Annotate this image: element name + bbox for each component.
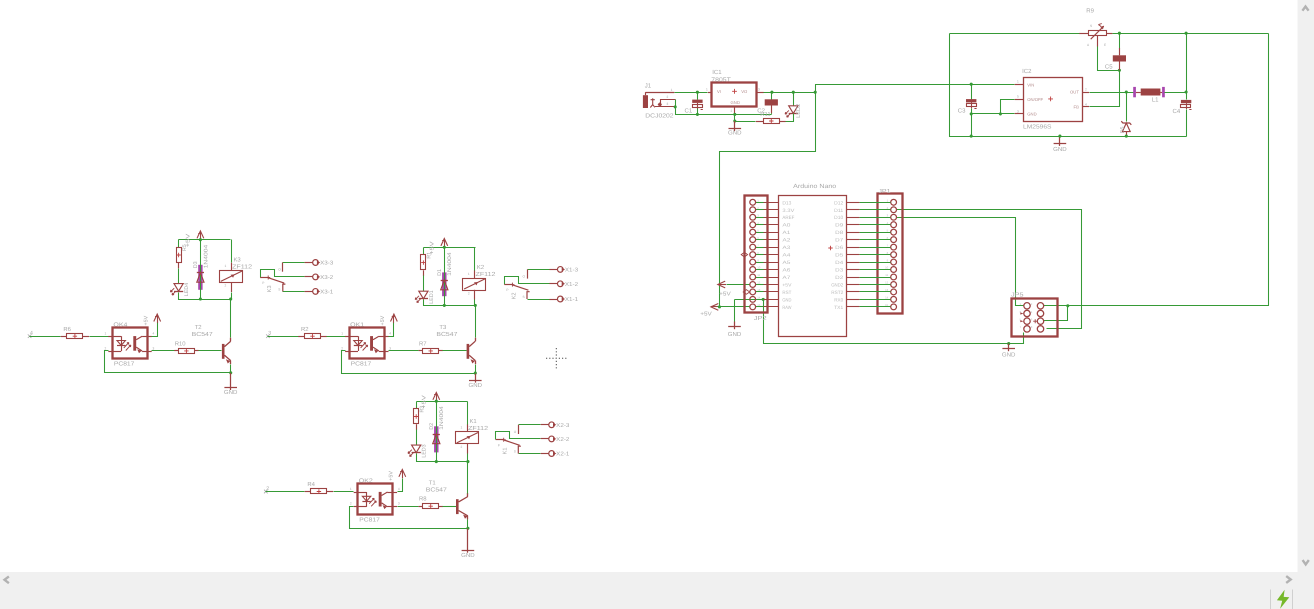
ground GND B [B] bbox=[475, 373, 477, 383]
wire C1 up bbox=[697, 93, 699, 100]
capacitor C3 bbox=[966, 99, 976, 102]
svg-text:4: 4 bbox=[398, 487, 400, 491]
svg-text:A4: A4 bbox=[782, 253, 790, 259]
svg-text:1: 1 bbox=[468, 272, 470, 276]
svg-text:D1: D1 bbox=[437, 269, 443, 276]
wire opto cathode feedback [C] bbox=[350, 507, 468, 529]
svg-text:X1-3: X1-3 bbox=[565, 268, 578, 274]
svg-text:R10: R10 bbox=[175, 340, 187, 347]
+5V supply at opto [B] bbox=[389, 323, 394, 337]
svg-text:BC547: BC547 bbox=[426, 486, 447, 493]
svg-text:C5: C5 bbox=[1105, 63, 1113, 70]
resistor R2 [B] bbox=[305, 334, 321, 339]
capacitor C2 bbox=[765, 99, 778, 105]
junction catch diode bbox=[1125, 90, 1128, 93]
junction relay bottom [C] bbox=[466, 460, 469, 463]
svg-text:GND: GND bbox=[224, 389, 238, 396]
resistor R5 [A] bbox=[178, 240, 180, 248]
svg-text:3: 3 bbox=[1017, 109, 1019, 113]
svg-text:2: 2 bbox=[667, 95, 669, 99]
svg-text:+5V: +5V bbox=[144, 315, 150, 325]
wire GND-R9 left loop bbox=[950, 34, 1187, 137]
wire FB node to FB pin bbox=[1090, 71, 1120, 107]
wire C3 top drop bbox=[971, 85, 973, 100]
wire opto to R8 [C] bbox=[398, 506, 419, 508]
svg-text:15: 15 bbox=[757, 303, 761, 307]
svg-text:1N4004: 1N4004 bbox=[439, 406, 445, 430]
optocoupler OK1 [B] bbox=[350, 328, 385, 359]
svg-text:P: P bbox=[506, 288, 508, 292]
svg-text:1N4004: 1N4004 bbox=[447, 252, 453, 276]
ground GND arduino bbox=[734, 322, 736, 330]
relay coil K2 [B] bbox=[463, 279, 486, 291]
relay contacts K3 with pads X3 bbox=[261, 270, 305, 278]
resistor R3 [C] bbox=[416, 402, 418, 409]
wire zener drop bbox=[1126, 93, 1128, 122]
svg-text:PC817: PC817 bbox=[359, 516, 380, 523]
wire buck out to JP5 bbox=[1068, 34, 1269, 306]
wire J1 pin3 down to GND rail bbox=[676, 100, 772, 115]
wire RAW net bbox=[718, 306, 750, 308]
svg-text:T2: T2 bbox=[195, 324, 202, 331]
svg-text:R7: R7 bbox=[419, 340, 427, 347]
wire LED to bottom rail [B] bbox=[424, 300, 476, 306]
svg-text:R4: R4 bbox=[307, 481, 315, 488]
resistor R10 [A] bbox=[179, 349, 195, 354]
svg-text:3: 3 bbox=[667, 102, 669, 106]
wire R9 wiper to FB node bbox=[1098, 47, 1120, 71]
svg-text:A5: A5 bbox=[782, 260, 790, 266]
wire JP5 pin2 out bbox=[1044, 305, 1068, 307]
svg-text:1: 1 bbox=[1017, 80, 1019, 84]
svg-text:1: 1 bbox=[341, 332, 343, 336]
svg-text:RX0: RX0 bbox=[834, 297, 843, 303]
diode D2 [C] bbox=[434, 426, 438, 452]
svg-text:X3-2: X3-2 bbox=[320, 275, 333, 281]
wire to transistor base [C] bbox=[443, 506, 457, 508]
junction IC1 GND at rail bbox=[733, 113, 736, 116]
wire GND drop to symbol bbox=[734, 300, 736, 322]
svg-text:D6: D6 bbox=[835, 245, 843, 251]
resistor R1 [B] bbox=[423, 248, 425, 255]
junction +5V rail [A] bbox=[199, 238, 202, 241]
wire R to LED [B] bbox=[423, 276, 425, 292]
svg-text:2: 2 bbox=[225, 284, 227, 288]
relay contacts K1 with pads X2 bbox=[496, 432, 541, 440]
svg-text:TX1: TX1 bbox=[834, 305, 843, 311]
inductor L1 bbox=[1133, 87, 1136, 97]
wire C2 drop bbox=[771, 93, 773, 100]
svg-text:+5V: +5V bbox=[719, 291, 731, 297]
svg-text:GND: GND bbox=[1027, 112, 1036, 117]
wire LED to bottom rail [A] bbox=[179, 293, 231, 300]
diode D1 [B] bbox=[442, 272, 446, 296]
svg-text:J1: J1 bbox=[645, 82, 652, 89]
svg-text:2: 2 bbox=[461, 445, 463, 449]
junction C1 bottom bbox=[696, 113, 699, 116]
svg-text:12: 12 bbox=[885, 281, 889, 285]
wire to optocoupler anode [A] bbox=[90, 336, 109, 338]
svg-text:BC547: BC547 bbox=[436, 331, 457, 338]
svg-text:K3: K3 bbox=[234, 256, 242, 263]
ground GND power-in bbox=[734, 121, 736, 131]
junction zener at GND rail bbox=[1125, 135, 1128, 138]
svg-text:1: 1 bbox=[105, 332, 107, 336]
junction GND rail2 bbox=[733, 119, 736, 122]
svg-text:JP2: JP2 bbox=[754, 315, 767, 322]
resistor R7 [B] bbox=[423, 349, 439, 354]
wire C3 column to GND rail bbox=[971, 114, 973, 137]
svg-text:C1: C1 bbox=[685, 108, 693, 115]
svg-text:LED2: LED2 bbox=[796, 104, 802, 118]
svg-text:X1-1: X1-1 bbox=[565, 297, 578, 303]
LED LED3 [C] bbox=[412, 445, 421, 453]
svg-text:OK1: OK1 bbox=[350, 322, 364, 329]
junction LED2 top bbox=[792, 91, 795, 94]
svg-text:AREF: AREF bbox=[782, 215, 794, 221]
svg-text:2: 2 bbox=[1085, 87, 1087, 91]
junction diode bottom [C] bbox=[435, 460, 438, 463]
svg-text:PC817: PC817 bbox=[114, 361, 135, 368]
wire LED2 bottom to R11 bbox=[786, 114, 794, 122]
wire emitter to gnd junction [A] bbox=[230, 365, 232, 373]
ground GND C [C] bbox=[467, 528, 469, 552]
svg-text:D11: D11 bbox=[834, 208, 843, 214]
wire +5V top rail [C] bbox=[417, 401, 468, 403]
module Arduino Nano body bbox=[779, 196, 847, 337]
svg-text:R8: R8 bbox=[419, 496, 427, 503]
svg-text:IC2: IC2 bbox=[1022, 68, 1032, 75]
svg-text:3: 3 bbox=[153, 346, 155, 350]
svg-text:ZF112: ZF112 bbox=[232, 263, 252, 270]
svg-text:C4: C4 bbox=[1173, 108, 1181, 115]
scrollbar bottom track bbox=[0, 572, 1314, 609]
svg-text:GND: GND bbox=[728, 130, 742, 137]
wire JP1 pin3 to JP5 bbox=[897, 218, 1024, 306]
resistor R11 bbox=[764, 119, 780, 124]
wire opto to R7 [B] bbox=[389, 350, 419, 352]
svg-text:D2: D2 bbox=[835, 275, 843, 281]
junction +5V rail [B] bbox=[443, 246, 446, 249]
wire JP1 pin2 to JP5 bbox=[897, 210, 1082, 329]
header JP2 bbox=[745, 196, 768, 313]
svg-text:DCJ0202: DCJ0202 bbox=[645, 113, 673, 120]
svg-text:10: 10 bbox=[885, 266, 889, 270]
svg-text:K3: K3 bbox=[267, 285, 273, 292]
svg-text:GND: GND bbox=[461, 552, 475, 559]
svg-text:10: 10 bbox=[757, 266, 761, 270]
svg-text:VO: VO bbox=[741, 89, 748, 94]
svg-text:GND: GND bbox=[1002, 351, 1016, 358]
scrollbar right track bbox=[1298, 0, 1314, 609]
junction diode bottom [B] bbox=[443, 304, 446, 307]
svg-text:GND: GND bbox=[1053, 146, 1067, 153]
svg-text:1: 1 bbox=[706, 88, 708, 92]
wire +5V to JP2 pin12 bbox=[727, 284, 750, 286]
wire to optocoupler anode [C] bbox=[334, 491, 354, 493]
svg-text:5: 5 bbox=[1017, 95, 1019, 99]
wire 5V corner up to LM2596 VIN bbox=[816, 85, 1015, 93]
capacitor C5 bbox=[1113, 55, 1126, 61]
svg-text:ZF112: ZF112 bbox=[476, 271, 496, 278]
svg-text:JP5: JP5 bbox=[1011, 291, 1024, 298]
svg-text:11: 11 bbox=[757, 273, 760, 277]
svg-text:1: 1 bbox=[350, 487, 352, 491]
svg-text:A1: A1 bbox=[782, 230, 790, 236]
svg-text:OK2: OK2 bbox=[359, 478, 373, 485]
wire C4 column top bbox=[1186, 34, 1188, 100]
svg-text:D5: D5 bbox=[1120, 126, 1126, 133]
wire GND long run to JP5 bbox=[764, 300, 1024, 344]
svg-text:2: 2 bbox=[468, 291, 470, 295]
svg-text:A2: A2 bbox=[782, 238, 790, 244]
capacitor C4 bbox=[1181, 100, 1191, 103]
resistor R4 [C] bbox=[311, 489, 327, 494]
svg-text:ZF112: ZF112 bbox=[468, 425, 488, 432]
mouse crosshair bbox=[546, 348, 567, 369]
wire LED2 drop bbox=[793, 93, 795, 106]
svg-text:3: 3 bbox=[389, 346, 391, 350]
wire GND rail2 bbox=[735, 121, 756, 123]
junction +5V rail [C] bbox=[435, 400, 438, 403]
junction C2 top bbox=[770, 91, 773, 94]
trimmer R9 bbox=[1089, 31, 1107, 36]
+5V supply at relay rail [B] bbox=[444, 240, 446, 248]
junction JP5 out bbox=[1066, 304, 1069, 307]
wire C2 bottom corner bbox=[771, 113, 773, 114]
diode D5 zener bbox=[1121, 121, 1131, 125]
wire input to R6 [A] bbox=[30, 336, 61, 338]
svg-text:K1: K1 bbox=[503, 448, 509, 455]
svg-text:T3: T3 bbox=[439, 324, 447, 331]
svg-text:S: S bbox=[514, 450, 516, 454]
svg-text:2: 2 bbox=[341, 346, 343, 350]
svg-text:RST2: RST2 bbox=[831, 290, 843, 296]
svg-text:GND: GND bbox=[469, 382, 483, 389]
+5V supply arrow at JP2 5V pin bbox=[718, 284, 726, 286]
optocoupler OK2 [C] bbox=[358, 484, 393, 515]
junction emitter-gnd [C] bbox=[466, 527, 469, 530]
wire opto to R10 [A] bbox=[152, 350, 175, 352]
svg-text:K2: K2 bbox=[477, 264, 484, 271]
scroll arrow right bbox=[1286, 576, 1291, 583]
wire collector to relay rail [B] bbox=[475, 306, 477, 338]
svg-text:D10: D10 bbox=[834, 215, 843, 221]
svg-text:FB: FB bbox=[1074, 105, 1080, 110]
svg-text:A6: A6 bbox=[782, 268, 790, 274]
header JP1 bbox=[878, 194, 903, 314]
svg-text:K1: K1 bbox=[470, 418, 477, 425]
transistor T3 [B] bbox=[467, 344, 470, 359]
wire opto cathode feedback [B] bbox=[342, 351, 476, 374]
svg-text:X1-2: X1-2 bbox=[565, 282, 578, 288]
svg-text:R1: R1 bbox=[427, 252, 433, 259]
junction relay bottom [B] bbox=[474, 304, 477, 307]
wire C1 bottom to GND rail bbox=[697, 109, 699, 115]
junction 5V corner bbox=[814, 91, 817, 94]
wire JP2 GND pin bbox=[735, 299, 764, 301]
svg-text:4: 4 bbox=[1085, 102, 1087, 106]
ground GND JP5 bbox=[1008, 344, 1010, 352]
svg-text:LED4: LED4 bbox=[184, 283, 190, 297]
svg-text:JP1: JP1 bbox=[878, 188, 890, 195]
wire J1 pin1 to IC1 VI (maroon pin part) bbox=[646, 92, 675, 94]
svg-text:13: 13 bbox=[885, 288, 889, 292]
svg-text:D7: D7 bbox=[835, 238, 843, 244]
svg-text:+5V: +5V bbox=[782, 282, 792, 288]
junction C5 top bbox=[1118, 32, 1121, 35]
lightning status icon bbox=[1277, 590, 1289, 609]
svg-text:R5: R5 bbox=[182, 244, 188, 251]
LED LED2 bbox=[789, 106, 798, 114]
svg-text:1N4004: 1N4004 bbox=[203, 245, 209, 269]
junction output at C4 bbox=[1185, 90, 1188, 93]
junction GND at JP5 symbol bbox=[1007, 342, 1010, 345]
junction buck-5V at RAW bbox=[718, 305, 721, 308]
svg-text:C3: C3 bbox=[958, 107, 966, 114]
svg-text:VI: VI bbox=[717, 89, 721, 94]
+5V supply at opto [C] bbox=[398, 479, 403, 492]
svg-text:3: 3 bbox=[398, 502, 400, 506]
status separators bbox=[1270, 590, 1272, 609]
svg-text:D3: D3 bbox=[193, 261, 199, 268]
junction ON/OFF-GND bbox=[999, 112, 1002, 115]
svg-text:X3-3: X3-3 bbox=[320, 261, 333, 267]
wire emitter to gnd junction [C] bbox=[467, 520, 469, 529]
svg-text:7805T: 7805T bbox=[711, 77, 731, 84]
svg-text:R11: R11 bbox=[760, 111, 770, 118]
svg-text:LED3: LED3 bbox=[422, 444, 428, 458]
relay coil K3 [A] bbox=[220, 271, 243, 283]
svg-text:D12: D12 bbox=[834, 200, 843, 206]
wire collector to relay rail [A] bbox=[230, 300, 232, 338]
svg-text:11: 11 bbox=[885, 273, 888, 277]
junction diode bottom [A] bbox=[199, 297, 202, 300]
svg-text:GND: GND bbox=[731, 100, 740, 105]
wire R to LED [A] bbox=[178, 269, 180, 284]
relay contacts K2 with pads X1 bbox=[505, 277, 550, 285]
svg-text:BC547: BC547 bbox=[192, 331, 213, 338]
regulator IC1 7805T bbox=[712, 83, 757, 107]
wire input to R2 [B] bbox=[268, 336, 299, 338]
svg-text:4: 4 bbox=[389, 332, 391, 336]
junction GND symbol at rail bbox=[1058, 135, 1061, 138]
svg-text:2: 2 bbox=[350, 502, 352, 506]
svg-text:GND: GND bbox=[782, 297, 791, 303]
wire +5V top rail [B] bbox=[424, 247, 476, 249]
wire OUT pin to L1 bbox=[1090, 92, 1134, 94]
svg-text:D9: D9 bbox=[835, 223, 843, 229]
regulator IC2 LM2596S bbox=[1024, 78, 1083, 122]
svg-text:S: S bbox=[523, 295, 525, 299]
header JP5 bbox=[1012, 299, 1058, 337]
wire +5V top rail [A] bbox=[179, 239, 231, 241]
wire ON/OFF to GND bbox=[1001, 100, 1015, 114]
svg-text:A3: A3 bbox=[782, 245, 790, 251]
svg-text:+5V: +5V bbox=[389, 471, 395, 481]
svg-text:13: 13 bbox=[757, 288, 761, 292]
svg-text:D13: D13 bbox=[782, 200, 791, 206]
svg-text:E: E bbox=[1104, 43, 1106, 47]
wire VIN net J1-C1-IC1 bbox=[675, 92, 708, 94]
svg-text:S: S bbox=[1090, 24, 1092, 28]
wire R to LED [C] bbox=[416, 430, 418, 446]
wire opto cathode feedback [A] bbox=[105, 351, 231, 373]
scroll arrow up bbox=[1302, 7, 1308, 11]
ground GND buck bbox=[1059, 136, 1061, 146]
diode D3 [A] bbox=[198, 265, 202, 290]
svg-text:A0: A0 bbox=[782, 223, 790, 229]
svg-text:IC1: IC1 bbox=[712, 69, 722, 76]
junction C3 at GND rail bbox=[970, 135, 973, 138]
junction C1 top bbox=[696, 91, 699, 94]
svg-text:+5V: +5V bbox=[700, 311, 712, 317]
svg-text:12: 12 bbox=[757, 281, 761, 285]
connector J1 DC jack DCJ0202 bbox=[643, 95, 648, 108]
svg-text:2: 2 bbox=[105, 346, 107, 350]
svg-text:RAW: RAW bbox=[782, 305, 791, 311]
svg-text:VIN: VIN bbox=[1027, 82, 1034, 87]
wire input to R4 [C] bbox=[266, 491, 305, 493]
wire to transistor base [B] bbox=[443, 350, 467, 352]
svg-text:3: 3 bbox=[758, 88, 760, 92]
junction FB node bbox=[1118, 69, 1121, 72]
wire L1 to C4 node bbox=[1165, 92, 1187, 94]
svg-text:1: 1 bbox=[461, 426, 463, 430]
wire C5 top drop bbox=[1119, 34, 1121, 49]
svg-text:3.3V: 3.3V bbox=[782, 208, 795, 214]
scroll arrow left bbox=[5, 576, 9, 583]
junction emitter-gnd [B] bbox=[474, 372, 477, 375]
LED LED4 [A] bbox=[174, 284, 183, 292]
wire GND pin rail bbox=[972, 113, 1015, 115]
+5V supply at opto [A] bbox=[152, 323, 158, 337]
svg-text:D3: D3 bbox=[835, 268, 843, 274]
wire 5V net IC1 VO to corner bbox=[764, 92, 816, 94]
wire JP5 pin6 loop bbox=[1044, 306, 1068, 321]
svg-text:L1: L1 bbox=[1152, 97, 1159, 104]
svg-text:A7: A7 bbox=[782, 275, 790, 281]
transistor T2 [A] bbox=[222, 344, 225, 359]
wire to optocoupler anode [B] bbox=[327, 336, 346, 338]
svg-text:X2-1: X2-1 bbox=[556, 452, 569, 458]
svg-text:S: S bbox=[278, 287, 280, 291]
svg-text:D2: D2 bbox=[429, 423, 435, 430]
wire GND rail1-rail2 link bbox=[734, 115, 736, 122]
junction C4 at top rail bbox=[1185, 32, 1188, 35]
capacitor C1 bbox=[692, 100, 702, 103]
wire 5V down-left to Arduino +5V bbox=[720, 93, 816, 307]
wire to transistor base [A] bbox=[199, 350, 222, 352]
scroll arrow down bbox=[1303, 560, 1309, 564]
+5V supply arrow at JP2 RAW pin bbox=[711, 306, 719, 308]
wire C4 bottom to GND rail bbox=[1186, 110, 1188, 137]
junction emitter-gnd [A] bbox=[229, 371, 232, 374]
svg-text:14: 14 bbox=[757, 296, 761, 300]
resistor R6 [A] bbox=[67, 334, 83, 339]
+5V supply at relay rail [A] bbox=[200, 232, 202, 240]
svg-text:R6: R6 bbox=[63, 326, 71, 333]
svg-text:1: 1 bbox=[225, 264, 227, 268]
svg-text:D5: D5 bbox=[835, 253, 843, 259]
svg-text:D4: D4 bbox=[835, 260, 843, 266]
svg-text:+5V: +5V bbox=[380, 315, 386, 325]
svg-text:Arduino Nano: Arduino Nano bbox=[793, 183, 837, 190]
junction C3 top bbox=[970, 83, 973, 86]
wire emitter to gnd junction [B] bbox=[475, 365, 477, 374]
svg-text:RST: RST bbox=[782, 290, 791, 296]
junction relay bottom [A] bbox=[229, 297, 232, 300]
